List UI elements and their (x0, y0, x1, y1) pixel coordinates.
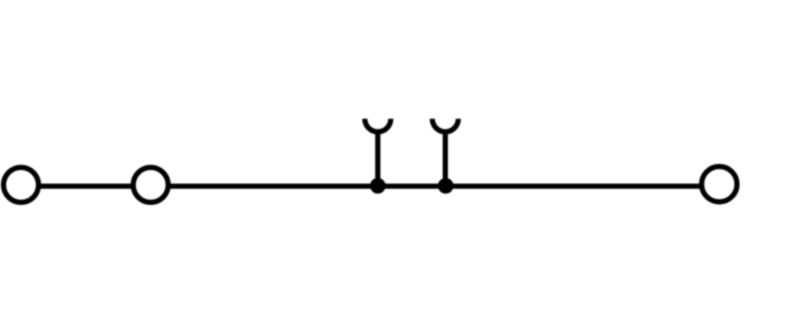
terminal circle 3 (right) (702, 167, 737, 202)
terminal circle 2 (133, 167, 168, 202)
wire: middle terminal through junctions to right terminal (167, 184, 703, 189)
wire: left terminal to middle terminal (37, 184, 134, 189)
test tap fork/cup 1 (365, 119, 391, 132)
terminal circle 1 (left, clipped at page edge) (4, 167, 39, 202)
test tap stem 2 (443, 131, 448, 187)
test tap stem 1 (375, 131, 380, 187)
test tap fork/cup 2 (432, 119, 458, 132)
node junction dot 2 (441, 181, 451, 191)
node junction dot 1 (373, 181, 383, 191)
